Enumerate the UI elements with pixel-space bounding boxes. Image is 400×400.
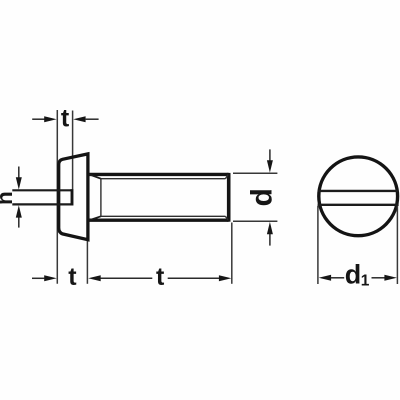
extension line shank end (bottom long t dim) — [231, 223, 233, 284]
end chamfer top — [225, 175, 228, 179]
svg-text:t: t — [61, 105, 70, 133]
d1 extension line right — [396, 206, 398, 284]
extension line head right face (bottom small t dim) — [86, 241, 88, 284]
top t dimension arrow right — [73, 116, 85, 122]
top t dimension line left tail — [32, 118, 44, 120]
bottom small t arrow left — [44, 275, 57, 281]
screw head (side view) — [59, 154, 88, 240]
end chamfer bottom — [225, 216, 228, 220]
shank thread crest bottom — [88, 218, 229, 221]
slot front view bottom edge — [318, 204, 399, 206]
d dimension extension line top — [233, 172, 277, 174]
extension line slot depth (top t dim right) — [72, 111, 74, 190]
svg-text:t: t — [68, 263, 77, 291]
d1 dim line right segment — [372, 277, 385, 279]
svg-text:d1: d1 — [345, 260, 370, 290]
slot side view top edge — [12, 189, 72, 191]
bottom long t dim line right segment — [168, 277, 220, 279]
full thread start line — [100, 179, 102, 217]
thread root line bottom — [101, 215, 225, 217]
bottom long t dim line left segment — [100, 277, 152, 279]
slot side view bottom edge — [12, 203, 72, 205]
svg-text:n: n — [0, 191, 17, 205]
d1 dim line left segment — [331, 277, 344, 279]
d dimension arrow bottom — [269, 234, 271, 246]
n dimension arrow top — [18, 167, 20, 178]
thread runout diagonal bottom — [89, 216, 101, 220]
svg-text:t: t — [156, 263, 165, 291]
d1 arrow left — [319, 275, 332, 281]
top t dimension line right tail — [86, 118, 99, 120]
d1 arrow right — [384, 275, 397, 281]
d dimension extension line bottom — [233, 220, 277, 222]
thread root line top — [101, 178, 225, 180]
top t dimension arrow left — [44, 116, 56, 122]
extension line head left face (shared top/bottom t dims) — [56, 110, 58, 284]
slot front view top edge — [318, 190, 399, 192]
svg-text:d: d — [246, 188, 279, 206]
bottom long t arrow right — [219, 275, 232, 281]
thread runout diagonal top — [89, 174, 101, 178]
head front view circle — [319, 157, 398, 236]
slot inner end (depth) line — [71, 189, 74, 205]
bottom small t dim line left tail — [32, 277, 44, 279]
shank thread crest top — [88, 173, 229, 176]
bottom long t arrow left (points left at head right ext) — [88, 275, 101, 281]
d dimension arrow top — [269, 149, 271, 160]
shank end face — [227, 173, 231, 222]
d1 extension line left — [317, 206, 319, 284]
n dimension arrow bottom — [18, 217, 20, 227]
